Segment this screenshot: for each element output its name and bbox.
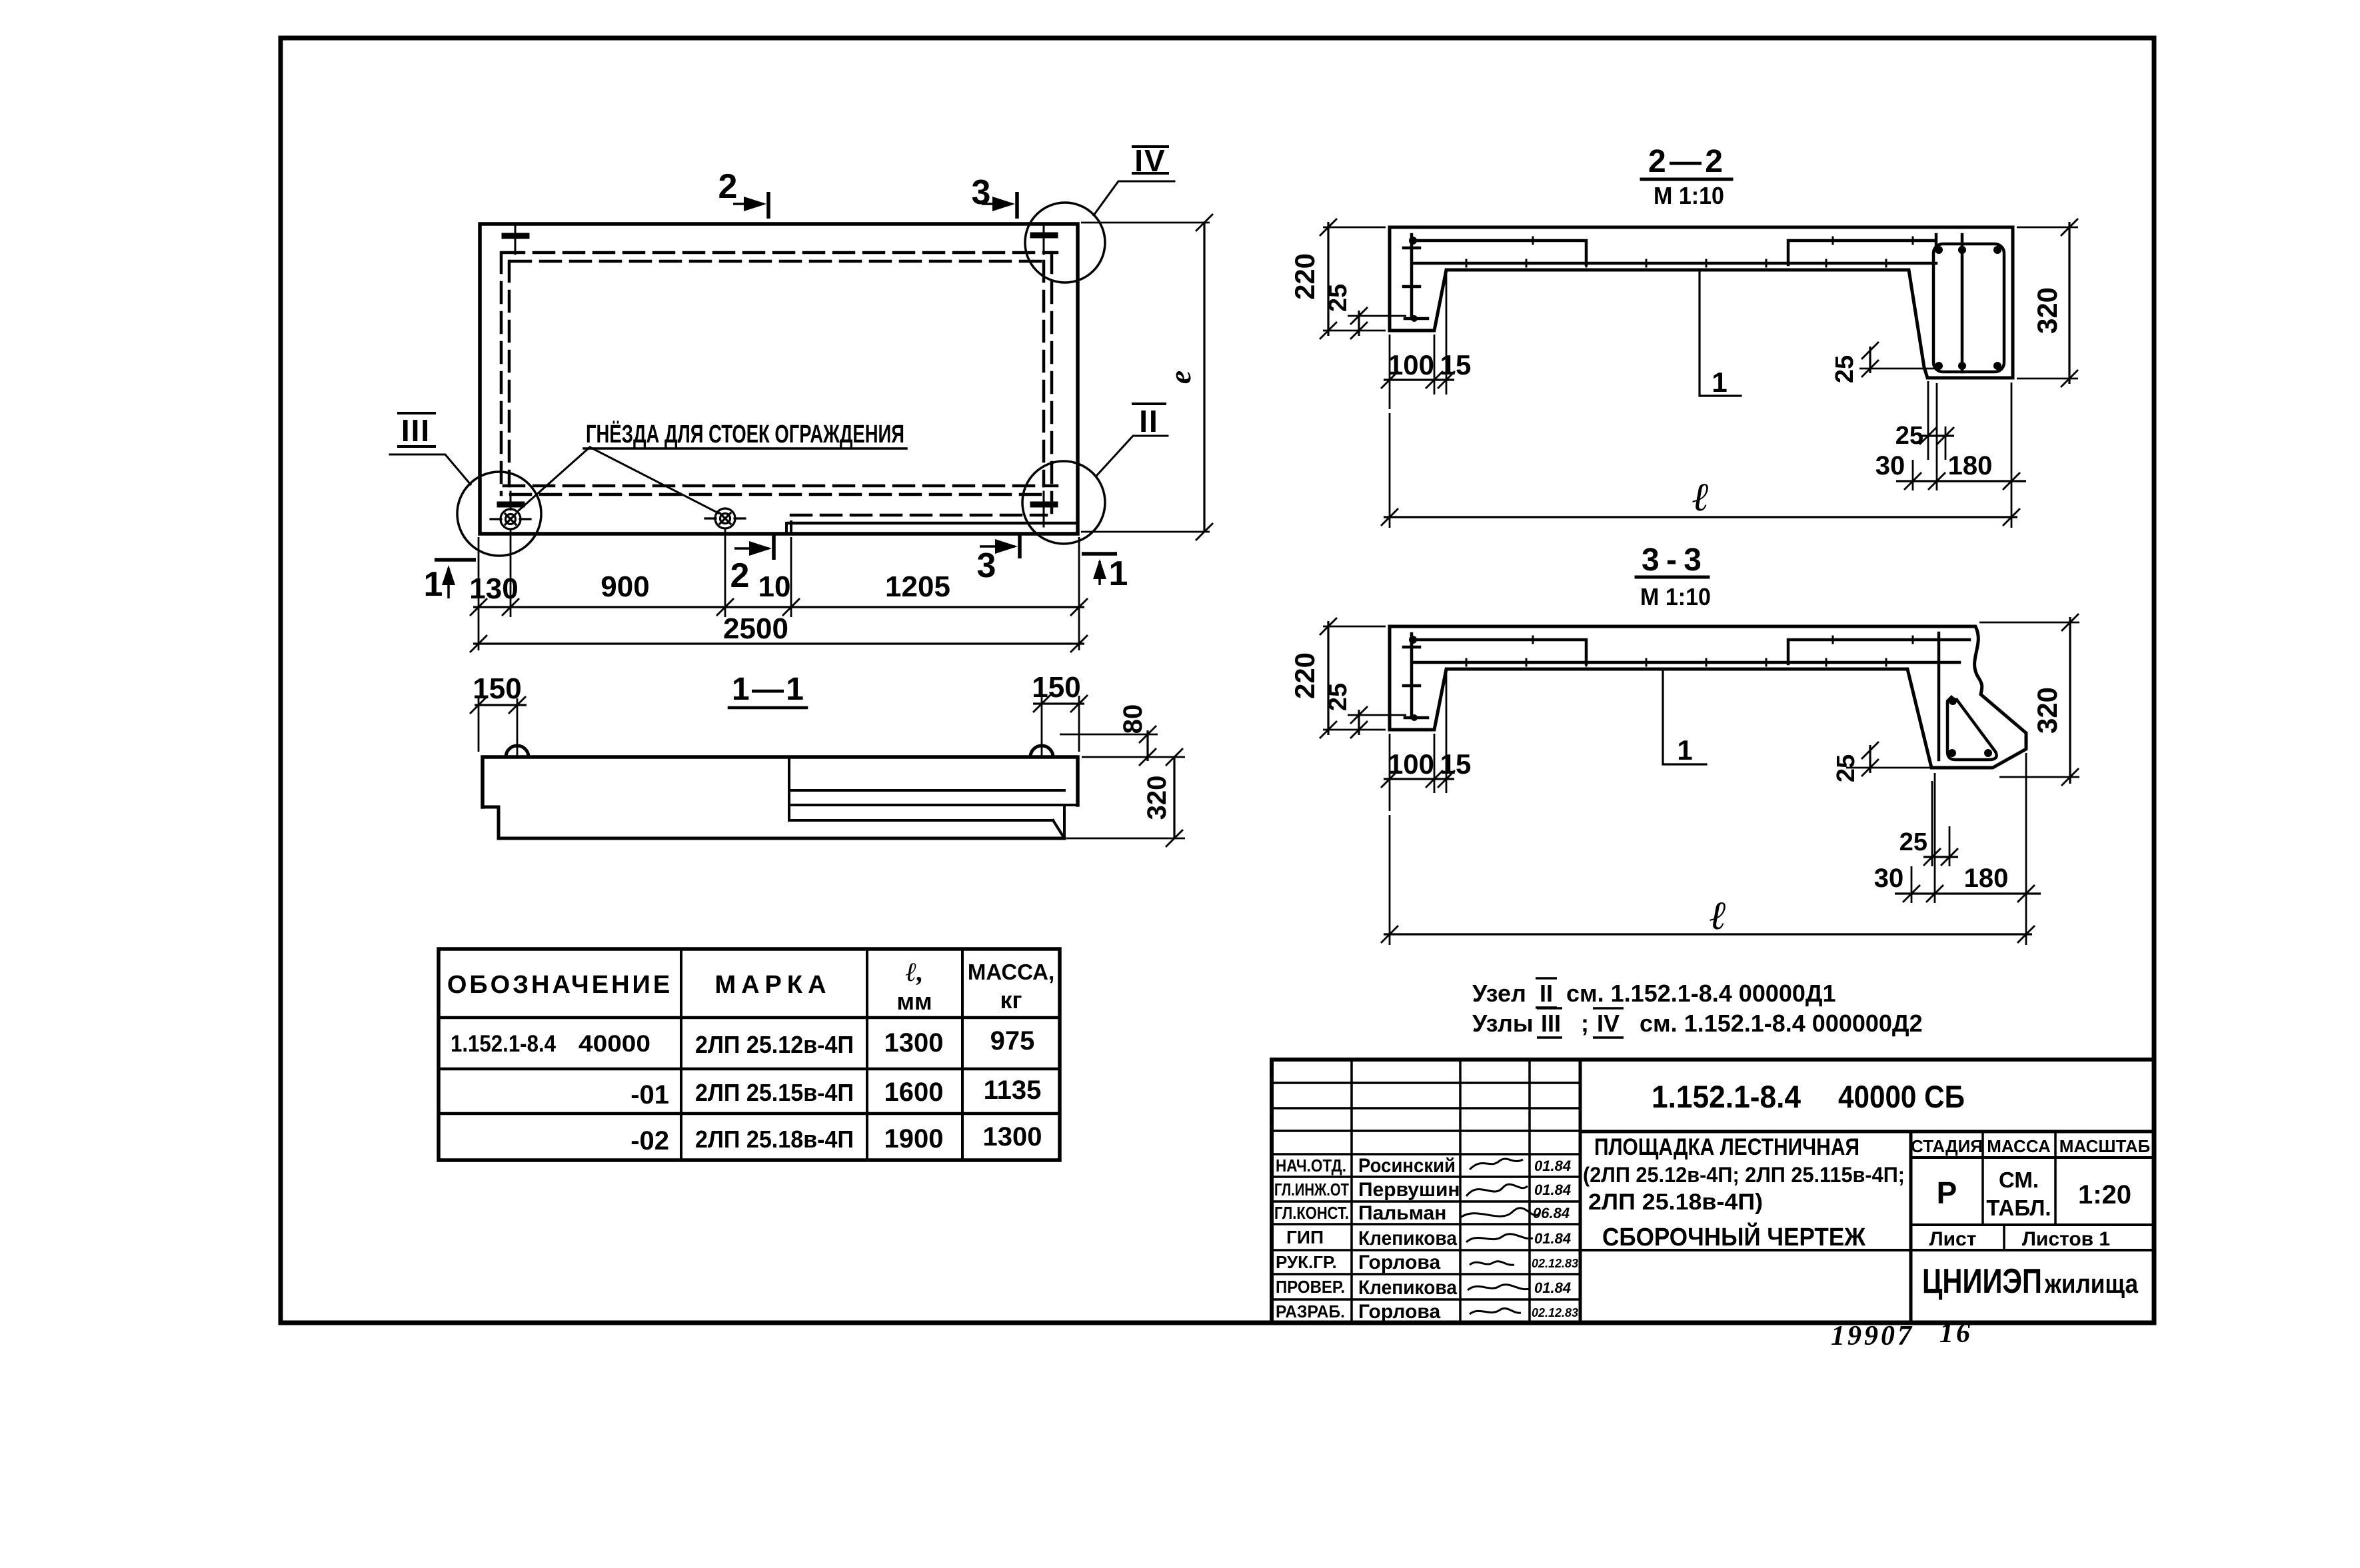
100 15 dims [1389,734,1391,811]
svg-text:II: II [1139,404,1159,438]
svg-text:25: 25 [1895,422,1923,450]
section 2-2 rebar top-right bar [1788,241,1933,265]
svg-text:320: 320 [1142,776,1172,820]
hidden ledge edge dashed [791,514,1046,517]
svg-text:СТАДИЯ: СТАДИЯ [1911,1136,1983,1156]
svg-text:Лист: Лист [1929,1228,1977,1250]
section 2-2 title underline [1642,178,1732,181]
section mark 2 top [766,192,770,219]
svg-text:ℓ,: ℓ, [905,957,923,987]
section 1-1 title underline [729,706,806,710]
svg-text:см. 1.152.1-8.4 00000Д1: см. 1.152.1-8.4 00000Д1 [1566,980,1836,1007]
svg-text:01.84: 01.84 [1534,1230,1571,1247]
leader node II [1097,436,1168,475]
node circle II [1022,461,1105,544]
svg-text:1.152.1-8.4: 1.152.1-8.4 [1652,1079,1801,1114]
title block name texts [1358,1155,1460,1323]
leader sockets [517,447,718,513]
svg-text:1: 1 [1109,554,1128,593]
title block role texts [1274,1156,1349,1321]
svg-text:III: III [1541,1010,1561,1037]
svg-text:МАРКА: МАРКА [714,971,831,999]
svg-text:1900: 1900 [884,1124,944,1154]
section 2-2 concrete outline [1390,227,2013,378]
svg-text:ℓ: ℓ [1710,894,1727,938]
svg-text:30: 30 [1875,451,1905,480]
svg-text:3 - 3: 3 - 3 [1642,542,1702,578]
corner embed mark bottom-right [1033,492,1055,526]
svg-text:МАССА: МАССА [1987,1136,2051,1156]
svg-text:НАЧ.ОТД.: НАЧ.ОТД. [1276,1156,1346,1176]
corner embed mark top-left [505,225,527,254]
25 lower horizontal dim [1927,381,1929,460]
leader 1 [1700,272,1741,396]
text underline gnezda [584,447,906,450]
section marks [435,192,1117,598]
plan slab outline [480,224,1078,534]
section mark 1 right [1082,552,1117,556]
svg-text:-01: -01 [630,1080,669,1110]
svg-text:ГИП: ГИП [1286,1227,1324,1247]
svg-text:1.152.1-8.4: 1.152.1-8.4 [451,1031,556,1057]
svg-text:40000 СБ: 40000 СБ [1838,1079,1965,1114]
25 right vertical dim [1846,767,1931,769]
svg-text:975: 975 [990,1026,1035,1056]
svg-text:СБОРОЧНЫЙ ЧЕРТЕЖ: СБОРОЧНЫЙ ЧЕРТЕЖ [1602,1221,1866,1251]
section 2-2 beam stirrup [1933,244,2004,372]
section 3-3 rebar bottom bar [1414,661,1959,664]
svg-text:25: 25 [1324,683,1352,711]
svg-text:СМ.: СМ. [1999,1168,2039,1192]
100 15 dims [1389,335,1391,409]
svg-text:II: II [1540,980,1553,1007]
svg-text:25: 25 [1899,828,1927,856]
svg-text:1205: 1205 [885,570,950,603]
svg-text:130: 130 [469,572,518,605]
rebar tick marks [1466,636,1913,666]
svg-text:2 — 2: 2 — 2 [1648,144,1723,179]
svg-text:жилища: жилища [2044,1269,2139,1299]
rebar section dots [1409,636,1992,757]
plan support ledge step edge [785,523,788,534]
svg-text:кг: кг [1000,986,1022,1014]
svg-text:01.84: 01.84 [1534,1158,1571,1174]
section mark 3 top [1015,192,1019,219]
svg-text:Первушин: Первушин [1358,1179,1460,1201]
section 2-2 dimensions [1320,219,2078,528]
30 180 dims [1911,866,1913,903]
svg-text:180: 180 [1948,451,1993,480]
svg-text:1:20: 1:20 [2078,1180,2131,1209]
title block vertical lines [1350,1060,1353,1323]
title block outline [1272,1060,2154,1323]
svg-text:16: 16 [1939,1318,1973,1349]
svg-text:1—1: 1—1 [732,672,804,707]
320 dim [1979,622,2079,624]
section 3-3 title underline [1636,576,1708,579]
svg-text:(2ЛП 25.12в-4П; 2ЛП 25.115в-4П: (2ЛП 25.12в-4П; 2ЛП 25.115в-4П; [1583,1163,1905,1187]
rebar section dots [1409,237,2001,370]
l dim [1389,413,1391,528]
svg-text:02.12.83: 02.12.83 [1532,1257,1578,1270]
table outline [439,949,1060,1160]
corner embed mark bottom-left [500,492,522,508]
svg-text:ЦНИИЭП: ЦНИИЭП [1922,1262,2042,1301]
sheet frame border [281,38,2154,1323]
svg-text:1600: 1600 [884,1078,944,1107]
80 dim [1060,734,1158,736]
svg-text:МАСШТАБ: МАСШТАБ [2059,1136,2150,1156]
section 1-1 ledge lines [788,757,790,820]
svg-text:2500: 2500 [723,612,788,645]
section 2-2 texts [1289,144,2063,519]
svg-text:25: 25 [1832,754,1860,782]
svg-text:1: 1 [1712,367,1727,398]
svg-text:-02: -02 [630,1126,669,1156]
svg-text:3: 3 [972,173,991,212]
section 2-2 rebar bottom bar [1414,262,1936,265]
svg-text:ОБОЗНАЧЕНИЕ: ОБОЗНАЧЕНИЕ [447,971,672,999]
svg-text:III: III [401,413,431,448]
svg-text:80: 80 [1118,704,1148,734]
svg-text:2ЛП 25.18в-4П): 2ЛП 25.18в-4П) [1588,1189,1763,1215]
node ref underlines [1536,977,1557,980]
leader node III [390,454,471,484]
svg-text:Горлова: Горлова [1358,1301,1440,1323]
svg-text:01.84: 01.84 [1534,1279,1571,1296]
svg-text:220: 220 [1289,652,1320,699]
svg-text:320: 320 [2031,687,2063,734]
svg-text:02.12.83: 02.12.83 [1532,1306,1578,1319]
svg-text:IV: IV [1597,1010,1620,1037]
svg-text:Узел: Узел [1472,980,1526,1007]
svg-text:150: 150 [473,672,521,705]
corner embed mark top-right [1033,225,1055,254]
svg-text:ГЛ.ИНЖ.ОТ: ГЛ.ИНЖ.ОТ [1274,1179,1349,1199]
svg-text:06.84: 06.84 [1533,1205,1570,1221]
section 3-3 concrete outline [1390,626,2026,768]
svg-text:Клепикова: Клепикова [1358,1277,1457,1299]
svg-text:см. 1.152.1-8.4 000000Д2: см. 1.152.1-8.4 000000Д2 [1640,1010,1923,1037]
section 3-3 right vertical bar [1937,633,1941,760]
title block texts [1583,1079,2150,1301]
svg-text:2ЛП 25.12в-4П: 2ЛП 25.12в-4П [695,1031,854,1058]
label III underline/overline [399,412,435,414]
section 2-2 rebar top-left bar [1412,241,1586,265]
lifting loop left [506,746,529,757]
svg-text:2ЛП 25.15в-4П: 2ЛП 25.15в-4П [695,1079,854,1106]
svg-text:Пальман: Пальман [1358,1202,1446,1224]
svg-text:;: ; [1581,1010,1589,1037]
25 left dim [1348,714,1406,716]
25 right vertical dim [1859,368,1935,370]
section 1-1 slab outline [483,757,1078,807]
svg-text:1135: 1135 [984,1076,1042,1105]
svg-text:Р: Р [1937,1176,1957,1210]
title block left rows [1272,1083,1580,1299]
section 2-2 rebar left vertical [1404,235,2004,372]
plan dimensions [470,214,1213,652]
railing socket left [491,493,531,529]
svg-text:ПРОВЕР.: ПРОВЕР. [1276,1277,1345,1297]
svg-text:Клепикова: Клепикова [1358,1227,1457,1249]
svg-text:М 1:10: М 1:10 [1654,182,1724,209]
svg-text:Листов 1: Листов 1 [2022,1228,2110,1250]
svg-text:IV: IV [1134,143,1166,178]
lifting loop right [1030,746,1053,757]
svg-text:ℓ: ℓ [1692,475,1710,519]
svg-text:30: 30 [1874,864,1904,893]
svg-text:М 1:10: М 1:10 [1640,583,1711,610]
svg-text:100: 100 [1388,748,1434,780]
svg-text:2: 2 [730,556,750,595]
svg-text:ПЛОЩАДКА ЛЕСТНИЧНАЯ: ПЛОЩАДКА ЛЕСТНИЧНАЯ [1594,1134,1859,1160]
section 3-3 nose stirrup [1947,697,1997,760]
svg-text:Узлы: Узлы [1472,1010,1534,1037]
section mark 2 bottom [772,533,776,560]
svg-text:15: 15 [1440,349,1472,381]
svg-text:10: 10 [758,570,791,603]
svg-text:01.84: 01.84 [1534,1181,1571,1198]
hidden slab edge dashed band left [500,253,503,494]
svg-text:2ЛП 25.18в-4П: 2ЛП 25.18в-4П [695,1126,854,1153]
25 lower horizontal dim [1931,781,1933,866]
svg-text:900: 900 [600,570,649,603]
node circle III [457,472,541,556]
svg-text:220: 220 [1289,253,1320,300]
svg-text:МАССА,: МАССА, [968,960,1054,984]
svg-text:1300: 1300 [983,1122,1042,1152]
node circle IV [1025,203,1105,283]
svg-text:320: 320 [2031,287,2063,334]
signature squiggles [1460,1159,1540,1314]
hidden slab edge dashed band bottom [504,484,1057,488]
table texts [447,957,1054,1156]
svg-text:40000: 40000 [579,1031,650,1057]
svg-text:2: 2 [718,167,738,206]
svg-text:100: 100 [1388,349,1434,381]
table column lines [680,949,682,1160]
title block right part lines [1580,1130,2154,1134]
section 1-1 texts [473,671,1172,820]
leader 1 [1663,672,1706,764]
svg-text:25: 25 [1831,355,1859,383]
section mark 1 left [435,558,476,562]
svg-text:1300: 1300 [884,1028,944,1058]
label IV underline/overline [1133,145,1168,148]
hidden slab edge dashed band right [1050,253,1054,514]
dim line 130-900-10-1205 [473,606,1084,608]
section 3-3 dimensions [1320,614,2079,945]
extension lines [478,537,480,650]
30 180 dims [1912,460,1914,490]
svg-text:Горлова: Горлова [1358,1251,1440,1273]
leader node IV [1094,181,1174,215]
svg-text:150: 150 [1032,671,1080,704]
svg-text:ГНЁЗДА ДЛЯ СТОЕК ОГРАЖДЕНИЯ: ГНЁЗДА ДЛЯ СТОЕК ОГРАЖДЕНИЯ [586,420,904,448]
svg-text:3: 3 [977,546,996,585]
svg-text:1: 1 [1677,734,1692,766]
plan texts [401,143,1197,645]
section 3-3 texts [1289,542,2063,938]
svg-text:ТАБЛ.: ТАБЛ. [1986,1195,2051,1220]
title block date texts [1532,1158,1578,1319]
l dim [1389,815,1391,945]
25 left dim [1348,315,1406,317]
320 dim [2017,227,2078,229]
svg-text:25: 25 [1324,284,1352,312]
section 3-3 rebar left vertical [1404,633,1997,760]
table row lines [439,1016,1060,1020]
svg-text:РУК.ГР.: РУК.ГР. [1276,1252,1337,1272]
section 3-3 rebar top-left bar [1412,640,1586,664]
320 dim [1066,838,1185,840]
hidden slab edge dashed band top [501,253,1057,515]
dim line 2500 [473,642,1084,644]
railing socket middle [705,508,745,528]
svg-text:15: 15 [1440,748,1472,780]
svg-text:180: 180 [1964,864,2009,893]
section 1-1 dimensions [470,695,1185,847]
svg-text:1: 1 [424,565,443,604]
svg-text:e: e [1163,371,1197,384]
dim line e [1203,223,1205,532]
svg-text:19907: 19907 [1831,1321,1914,1351]
svg-text:РАЗРАБ.: РАЗРАБ. [1276,1301,1345,1321]
svg-text:Росинский: Росинский [1358,1155,1456,1177]
svg-text:ГЛ.КОНСТ.: ГЛ.КОНСТ. [1274,1203,1349,1223]
section 3-3 rebar top-right bar [1788,640,1969,664]
svg-text:мм: мм [896,988,932,1015]
label II underline/overline [1133,402,1165,405]
section mark 3 bottom [1018,533,1022,558]
rebar tick marks [1466,237,1913,267]
